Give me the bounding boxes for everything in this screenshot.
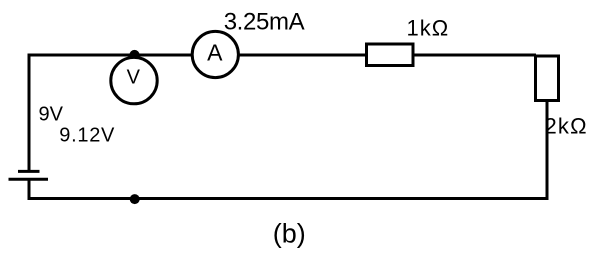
wire: battery + terminal up and top-left to node A <box>29 55 134 172</box>
svg-text:3.25mA: 3.25mA <box>224 9 305 36</box>
svg-text:A: A <box>207 40 223 66</box>
svg-text:(b): (b) <box>273 219 306 249</box>
svg-text:9.12V: 9.12V <box>59 125 115 147</box>
battery plate short (top) <box>18 170 40 173</box>
svg-text:2kΩ: 2kΩ <box>545 114 588 139</box>
wire: resistor R1 to resistor R2 top <box>413 54 536 57</box>
ammeter A circle <box>192 31 238 77</box>
svg-text:1kΩ: 1kΩ <box>407 16 450 41</box>
resistor R1 body <box>367 44 414 66</box>
battery plate long (bottom) <box>9 178 49 181</box>
node B junction dot <box>130 194 140 204</box>
wire: ammeter right terminal to resistor R1 <box>239 54 367 57</box>
wire: battery - terminal down to node B on bottom rail <box>29 179 135 199</box>
wire: bottom rail node B to resistor R2 bottom <box>135 101 548 199</box>
resistor R2 body <box>536 56 559 101</box>
wire: node A to ammeter left terminal <box>134 54 192 57</box>
voltmeter V circle <box>111 57 157 103</box>
svg-text:V: V <box>127 67 141 89</box>
node A junction dot <box>129 50 139 60</box>
svg-text:9V: 9V <box>39 103 64 125</box>
